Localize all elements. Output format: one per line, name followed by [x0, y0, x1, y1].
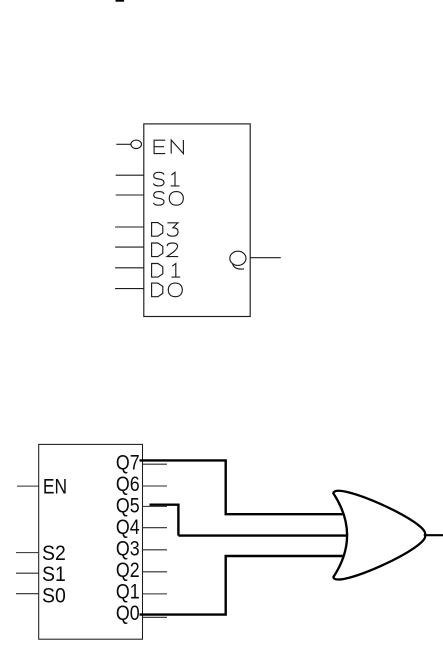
- U1 pin S1 wire: [116, 174, 144, 176]
- svg-text:S1: S1: [42, 563, 66, 586]
- OR gate U3 body: [333, 491, 425, 580]
- svg-text:Q4: Q4: [116, 516, 140, 539]
- U2 pin S0 wire: [16, 593, 39, 595]
- U1 label S1: [153, 172, 179, 186]
- svg-text:Q3: Q3: [116, 537, 140, 560]
- svg-text:Q2: Q2: [116, 559, 140, 582]
- svg-text:Q7: Q7: [116, 451, 140, 474]
- svg-text:Q0: Q0: [116, 602, 140, 625]
- svg-text:S0: S0: [42, 584, 66, 607]
- OR gate output wire: [425, 534, 443, 536]
- cropped text fragment at top edge: [116, 0, 125, 2]
- U2 pin S1 wire: [16, 572, 39, 574]
- net Q5 to OR gate input 2 wire: [150, 505, 347, 536]
- U2 pin Q1 stub: [143, 593, 168, 595]
- U2 pin Q0 stub: [143, 616, 168, 618]
- U1 label D1: [152, 264, 181, 278]
- U2 pin Q6 stub: [143, 485, 168, 487]
- net Q0 to OR gate input 3 wire: [140, 556, 344, 615]
- IC U1 (4-to-1 multiplexer) body: [144, 124, 250, 317]
- U2 pin Q4 stub: [143, 527, 168, 529]
- U1 label Q: [230, 251, 246, 269]
- U1 pin Q output wire: [250, 257, 281, 259]
- U1 label D2: [152, 243, 179, 257]
- U2 pin S2 wire: [16, 552, 39, 554]
- U2 pin EN wire: [17, 485, 39, 487]
- U1 pin S0 wire: [116, 194, 144, 196]
- U2 pin Q7 stub: [143, 463, 168, 465]
- U1 pin D3 wire: [115, 226, 144, 228]
- U1 label EN: [154, 140, 183, 154]
- U2 pin Q3 stub: [143, 549, 168, 551]
- svg-text:S2: S2: [42, 542, 66, 565]
- U1 label D0: [152, 283, 183, 297]
- U2 pin Q2 stub: [143, 571, 168, 573]
- U1 pin EN wire: [116, 143, 131, 145]
- U1 pin D0 wire: [115, 288, 144, 290]
- svg-text:Q5: Q5: [116, 494, 140, 517]
- svg-text:Q1: Q1: [116, 580, 140, 603]
- svg-text:EN: EN: [43, 475, 67, 498]
- svg-text:Q6: Q6: [116, 473, 140, 496]
- U1 label S0: [153, 192, 183, 206]
- U1 pin D1 wire: [115, 267, 144, 269]
- IC U2 (3-to-8 decoder) body: [39, 444, 143, 639]
- U1 pin EN inversion bubble: [131, 140, 142, 148]
- U1 label D3: [152, 223, 178, 237]
- net Q7 to OR gate input 1 wire: [140, 460, 344, 514]
- U1 pin D2 wire: [115, 246, 144, 248]
- U2 pin Q5 stub: [143, 505, 168, 507]
